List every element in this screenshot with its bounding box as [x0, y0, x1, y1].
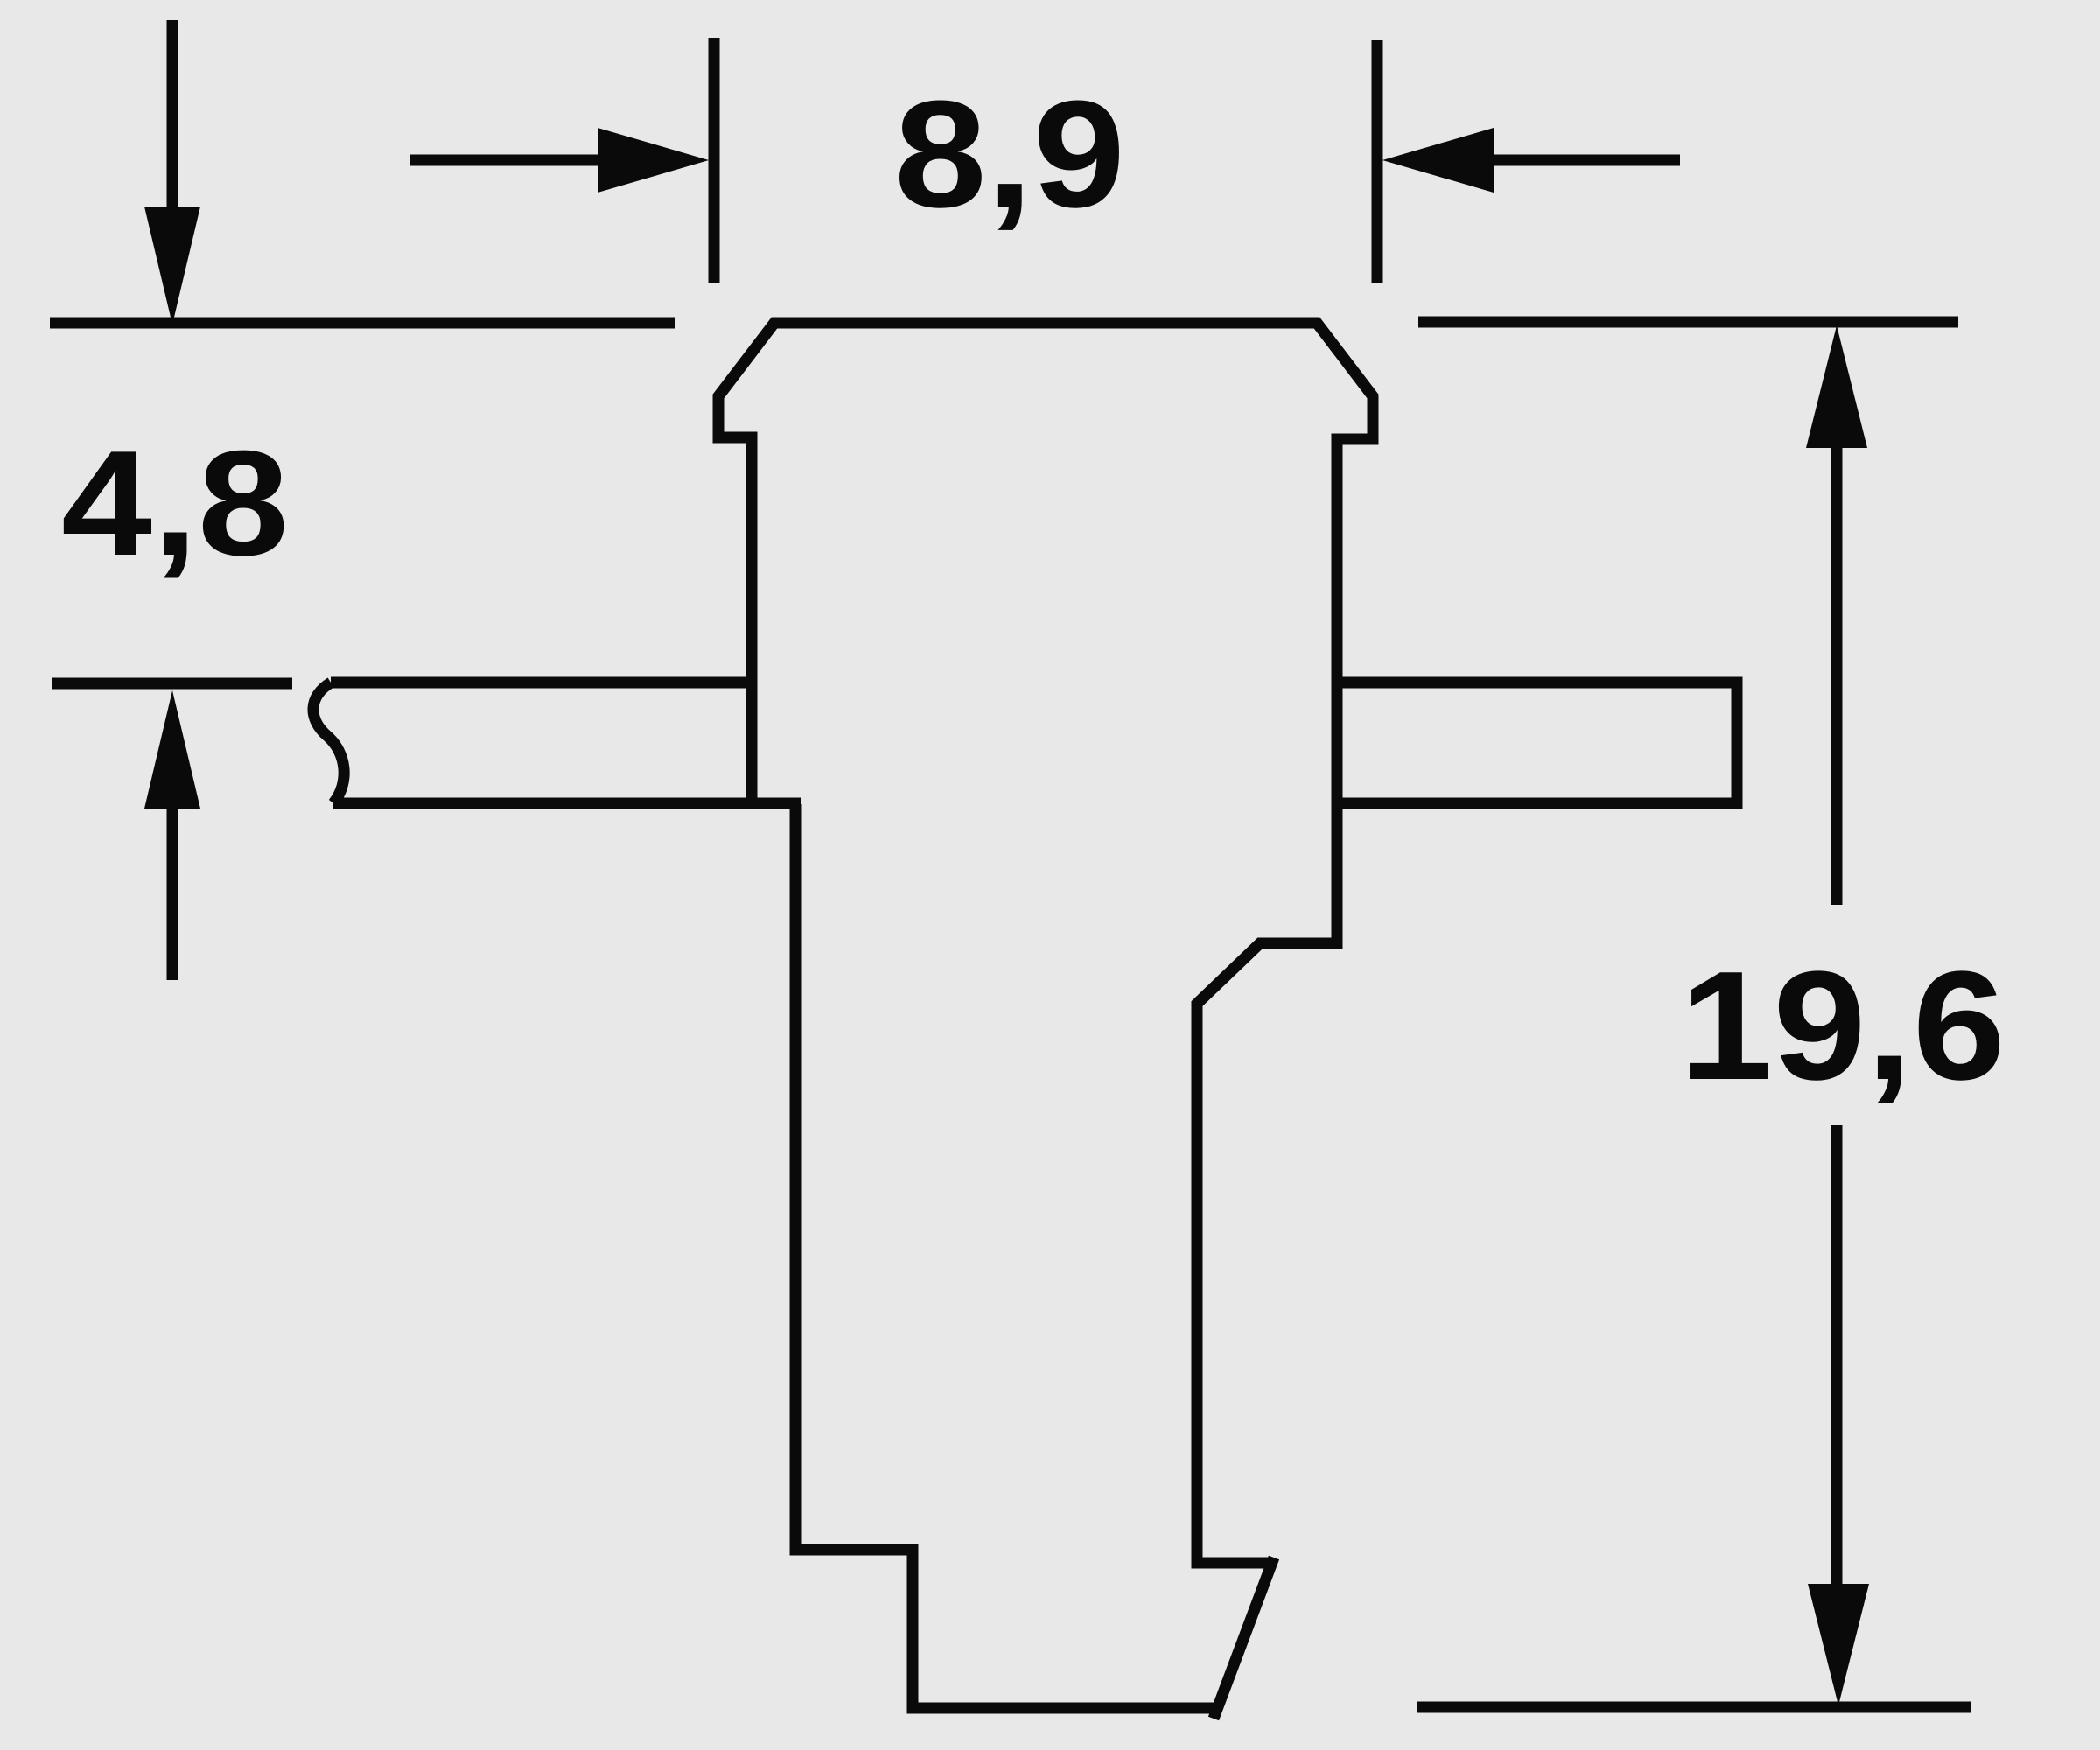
- svg-text:8,9: 8,9: [894, 68, 1125, 239]
- dimension 8,9 left arrow: [410, 128, 709, 192]
- dimension 8,9 right arrow: [1382, 128, 1680, 192]
- profile outline: left neck, barb, chamfer, top edge, right chamfer, barb, body, notch, leg: [718, 323, 1373, 1563]
- bottom edge and left leg step: [795, 804, 1216, 1708]
- dimension 4,8 up arrow: [144, 690, 200, 980]
- extension line top right: [1418, 317, 1958, 328]
- dimension 19,6 top arrow: [1806, 325, 1867, 905]
- extension line top left: [50, 318, 675, 329]
- dimension 19,6 bottom arrow: [1808, 1125, 1869, 1705]
- left tab bottom edge: [333, 798, 801, 809]
- extension line vertical left of 8,9: [709, 38, 720, 283]
- dimension 4,8 down arrow: [144, 20, 200, 325]
- extension line vertical right of 8,9: [1372, 40, 1383, 283]
- left tab break squiggle: [313, 682, 344, 803]
- svg-text:4,8: 4,8: [61, 420, 289, 587]
- extension line bottom right: [1417, 1702, 1971, 1713]
- right tab rectangle: [1337, 682, 1737, 803]
- svg-text:19,6: 19,6: [1680, 939, 2005, 1112]
- extension line 4,8 lower: [52, 678, 292, 689]
- bottom break slash: [1214, 1557, 1274, 1718]
- left tab top edge: [331, 677, 752, 689]
